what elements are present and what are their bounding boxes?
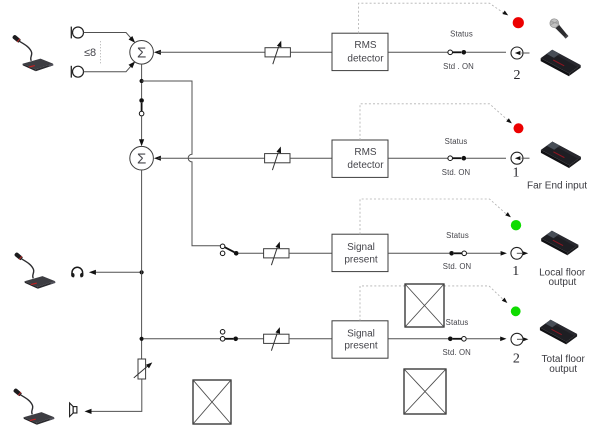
switch S2 Std/ON [448,156,466,161]
Signal present 2 box [332,321,388,358]
svg-text:Std. ON: Std. ON [443,262,471,271]
dotted separator line [100,41,102,64]
desk microphone image 2 [14,252,56,289]
wire attenuator RV5 to loudspeaker with arrow [85,379,142,414]
output connector 2 [511,333,528,345]
svg-text:present: present [344,341,378,352]
wire RMS detector 2 to attenuator RV2 [290,157,332,159]
svg-text:Status: Status [450,30,473,39]
svg-text:RMS: RMS [354,147,377,158]
wire branch junction A right and down to row 3 with hop over row 2 [142,81,221,246]
loudspeaker icon [70,403,77,417]
left input connector jack 1 [71,27,83,39]
crossed reserved box 1 [405,284,444,327]
junction node C total floor branch [140,337,144,341]
output connector 1 [511,247,528,259]
dashed status line 1 [359,3,510,33]
red LED 1 [513,17,524,28]
headphones icon [71,267,83,277]
RMS detector 1 box [332,33,388,70]
svg-text:Std. ON: Std. ON [442,348,470,357]
summing amp U1 [130,41,154,65]
bodypack device 4 [540,320,577,345]
wire attenuator RV3 to Signal present 1 [289,252,332,254]
wire junction A to switch S5 [141,83,143,98]
variable attenuator RV4 [264,326,289,350]
RMS detector 2 box [332,140,388,177]
svg-text:≤8: ≤8 [84,47,96,59]
desk microphone image 1 [12,34,54,71]
junction node B headphone branch [140,270,144,274]
svg-text:1: 1 [513,166,520,181]
wire switch S2 to connector 1 [466,157,506,159]
wire switch S6 to connector 1 out with arrow [467,251,507,256]
wire RMS detector 2 to switch S2 [388,157,448,159]
wire switch S4 to attenuator RV4 [238,338,264,340]
svg-text:output: output [548,277,576,288]
variable attenuator RV1 [265,40,290,64]
wire switch S3 to attenuator RV3 [239,252,264,254]
svg-text:present: present [344,254,378,265]
bodypack device 3 [541,231,578,256]
red LED 2 [514,123,524,133]
label Total floor output [542,354,586,375]
svg-text:RMS: RMS [354,40,377,51]
wire switch S7 to connector 2 out with arrow [466,337,506,342]
crossed reserved box 3 [193,380,231,424]
wire junction B to headphones with arrow [89,270,140,275]
label Local floor output [539,267,586,288]
svg-text:2: 2 [513,351,520,366]
wire RMS detector 1 to attenuator RV1 [290,51,332,53]
wire attenuator RV1 to summer U1 with arrow [154,50,265,55]
bodypack device 1 [541,50,581,77]
switch S1 Std/ON [448,50,466,55]
wire junction C to switch S4 [144,338,221,340]
svg-text:Signal: Signal [347,329,375,340]
wire attenuator RV2 to summer U2 with arrow [154,156,265,161]
input connector 2 [511,47,530,59]
svg-text:Std. ON: Std. ON [442,168,470,177]
variable attenuator RV2 [265,146,290,170]
handheld microphone image [548,17,570,40]
svg-text:Far End input: Far End input [527,180,587,191]
wire summer U1 down to junction [141,64,143,81]
Signal present 1 box [332,234,388,271]
svg-text:1: 1 [512,264,519,279]
switch S4 row 4 [220,330,238,342]
variable attenuator RV3 [264,241,289,265]
variable attenuator RV5 vertical [134,359,154,379]
green LED 4 [511,306,521,316]
bodypack device 2 [541,142,581,169]
wire switch S1 to connector 2 [466,51,506,53]
junction node A [140,79,144,83]
wire from jack 1 to summer U1 [84,33,138,45]
svg-text:detector: detector [347,160,384,171]
switch S7 Std/ON [448,337,466,342]
svg-text:detector: detector [347,53,384,64]
svg-text:Std . ON: Std . ON [443,62,474,71]
input connector 1 [511,152,530,164]
svg-text:Σ: Σ [137,45,146,62]
dashed status line 4 [360,286,509,321]
green LED 3 [511,220,521,230]
svg-text:Status: Status [446,318,469,327]
svg-text:Signal: Signal [347,242,375,253]
dashed status line 3 [360,199,512,234]
wire attenuator RV4 to Signal present 2 [289,338,332,340]
switch S3 row 3 [220,244,238,256]
svg-text:Status: Status [446,231,469,240]
switch S6 Std/ON [449,251,466,256]
summing amp U2 [130,146,154,170]
crossed reserved box 2 [404,369,446,414]
desk microphone image 3 [13,388,55,425]
wire Signal present 1 to switch S6 [388,252,449,254]
svg-text:output: output [549,364,577,375]
switch S5 in bus [139,98,144,116]
wire from jack 2 to summer U1 [84,60,138,72]
svg-text:2: 2 [514,68,521,83]
left input connector jack 2 [71,66,83,78]
wire Signal present 2 to switch S7 [388,338,448,340]
wire bus from summer U2 down [141,170,143,359]
wire switch S5 to summer U2 with arrow [139,116,144,146]
svg-text:Σ: Σ [137,151,146,168]
svg-text:Status: Status [445,137,468,146]
wire RMS detector 1 to switch S1 [388,51,448,53]
dashed status line 2 [360,104,513,140]
